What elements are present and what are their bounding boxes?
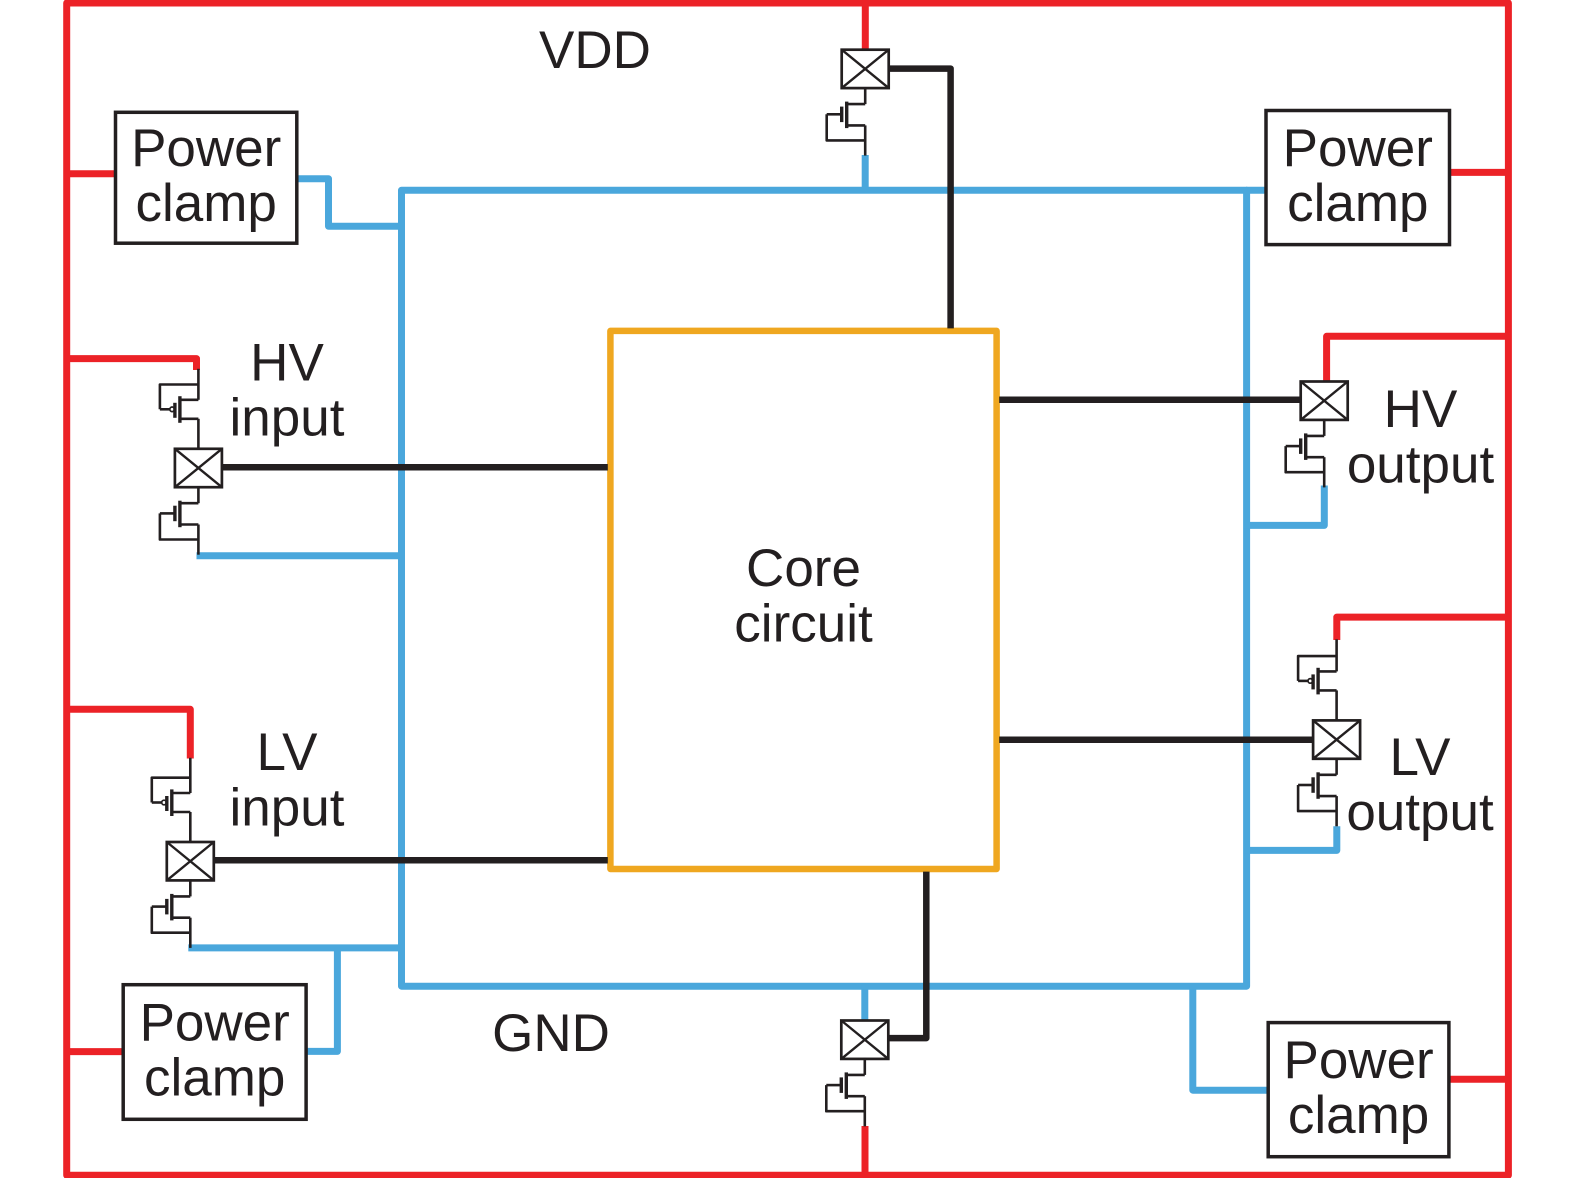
- wire GND bus to bottom-right power clamp: [1193, 985, 1269, 1090]
- bonding pad LV output: [1313, 720, 1360, 758]
- wire LV output PMOS to VDD ring: [1337, 617, 1508, 640]
- svg-text:GND: GND: [492, 1004, 610, 1063]
- wire GND bus to GND pad: [861, 985, 868, 1022]
- power clamp block (top-right): [1266, 111, 1450, 245]
- power clamp block (bottom-right): [1268, 1023, 1449, 1157]
- wire VDD ring to VDD pad: [862, 3, 869, 51]
- svg-text:Core: Core: [746, 539, 861, 598]
- svg-text:circuit: circuit: [734, 595, 873, 654]
- bonding pad HV input: [175, 449, 222, 487]
- power clamp block (top-left): [116, 112, 297, 243]
- wire HV output pad to VDD ring: [1327, 336, 1508, 382]
- bonding pad VDD (top): [842, 50, 889, 88]
- svg-text:LV: LV: [257, 723, 319, 782]
- ESD PMOS M7 (VDD to LV output pad): [1298, 639, 1337, 721]
- label HV output: [1347, 380, 1495, 495]
- wire GND-pad clamp NMOS to bottom VDD ring: [862, 1126, 869, 1175]
- wire VDD pad to core circuit (top): [889, 69, 951, 329]
- wire bottom-right power clamp to VDD ring: [1448, 1076, 1508, 1083]
- svg-text:VDD: VDD: [539, 21, 651, 80]
- label LV input: [230, 723, 345, 837]
- clamp NMOS M1 (VDD pad to GND bus): [827, 87, 866, 156]
- ESD PMOS M2 (VDD to HV input pad): [160, 369, 199, 450]
- wire HV input clamp NMOS to GND bus: [197, 552, 404, 559]
- label LV output: [1346, 728, 1494, 842]
- svg-text:output: output: [1346, 783, 1494, 842]
- wire LV input clamp NMOS to GND bus: [188, 944, 403, 951]
- svg-text:input: input: [230, 779, 345, 838]
- svg-text:clamp: clamp: [136, 174, 277, 233]
- GND bus ring (blue inner rail): [402, 190, 1247, 986]
- wire GND bus to top-right power clamp: [1246, 187, 1267, 194]
- core circuit block: [610, 331, 996, 869]
- wire VDD ring to bottom-left power clamp: [67, 1048, 125, 1055]
- svg-text:clamp: clamp: [1288, 1086, 1429, 1145]
- ESD NMOS M6 (HV output pad to GND): [1286, 419, 1325, 488]
- power clamp block (bottom-left): [123, 985, 306, 1120]
- svg-text:Power: Power: [140, 994, 290, 1053]
- wire LV input pad to core circuit: [214, 857, 608, 864]
- svg-text:output: output: [1347, 436, 1495, 495]
- clamp NMOS M9 (GND pad to VDD ring): [826, 1058, 865, 1127]
- bonding pad HV output: [1301, 382, 1348, 420]
- ESD PMOS M4 (VDD to LV input pad): [152, 758, 191, 843]
- wire top-right power clamp to VDD ring: [1449, 169, 1509, 176]
- wire bottom-left power clamp to GND bus riser: [305, 948, 337, 1052]
- bonding pad GND (bottom): [841, 1021, 888, 1059]
- wire VDD ring to top-left power clamp: [67, 170, 117, 177]
- wire core circuit to HV output pad: [999, 397, 1301, 404]
- svg-text:Power: Power: [1283, 1031, 1433, 1090]
- wire VDD ring to LV input PMOS: [67, 709, 190, 758]
- wire LV output clamp NMOS to GND bus: [1244, 826, 1337, 850]
- wire core circuit to LV output pad: [999, 737, 1313, 744]
- wire HV output clamp NMOS to GND bus: [1244, 486, 1324, 526]
- svg-text:Power: Power: [131, 119, 281, 178]
- label HV input: [230, 334, 345, 448]
- svg-text:HV: HV: [1384, 380, 1458, 439]
- svg-text:Power: Power: [1283, 119, 1433, 178]
- wire core circuit to GND pad (bottom): [889, 872, 927, 1039]
- svg-text:input: input: [230, 389, 345, 448]
- bonding pad LV input: [167, 842, 214, 880]
- svg-text:clamp: clamp: [1287, 174, 1428, 233]
- ESD NMOS M5 (LV input pad to GND): [152, 879, 191, 948]
- svg-text:clamp: clamp: [144, 1049, 285, 1108]
- svg-text:HV: HV: [250, 334, 324, 393]
- ESD NMOS M8 (LV output pad to GND): [1298, 758, 1337, 827]
- svg-text:LV: LV: [1390, 728, 1452, 787]
- wire VDD ring to HV input PMOS: [67, 359, 197, 370]
- wire top-left power clamp to GND bus: [296, 179, 402, 227]
- wire HV input pad to core circuit: [222, 464, 608, 471]
- wire VDD-pad clamp NMOS to GND bus: [862, 155, 869, 192]
- ESD NMOS M3 (HV input pad to GND): [160, 486, 199, 555]
